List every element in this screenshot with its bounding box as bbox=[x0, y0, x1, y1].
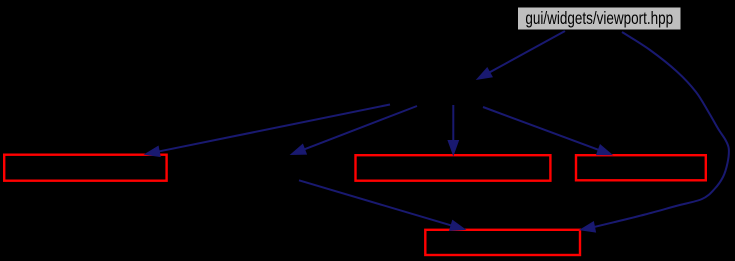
edge hidden node 1 -> middle red box bbox=[448, 105, 458, 155]
middle red box (hidden label node) bbox=[356, 155, 551, 181]
bottom red box (hidden label node) bbox=[425, 230, 580, 255]
svg-text:gui/widgets/viewport.hpp: gui/widgets/viewport.hpp bbox=[525, 9, 673, 28]
edge hidden node 2 -> bottom red box bbox=[299, 180, 465, 230]
edge hidden node 1 -> left red box bbox=[145, 105, 390, 157]
edge hidden node 1 -> right red box bbox=[483, 107, 612, 155]
edge viewport.hpp -> hidden node 1 bbox=[477, 31, 565, 79]
left red box (hidden label node) bbox=[4, 155, 166, 181]
edge viewport.hpp -> bottom box (long curved edge) bbox=[580, 32, 729, 232]
node gui/widgets/viewport.hpp (grey title node) bbox=[518, 7, 682, 30]
right red box (hidden label node) bbox=[576, 155, 706, 180]
edge hidden node 1 -> hidden node 2 bbox=[291, 106, 417, 155]
